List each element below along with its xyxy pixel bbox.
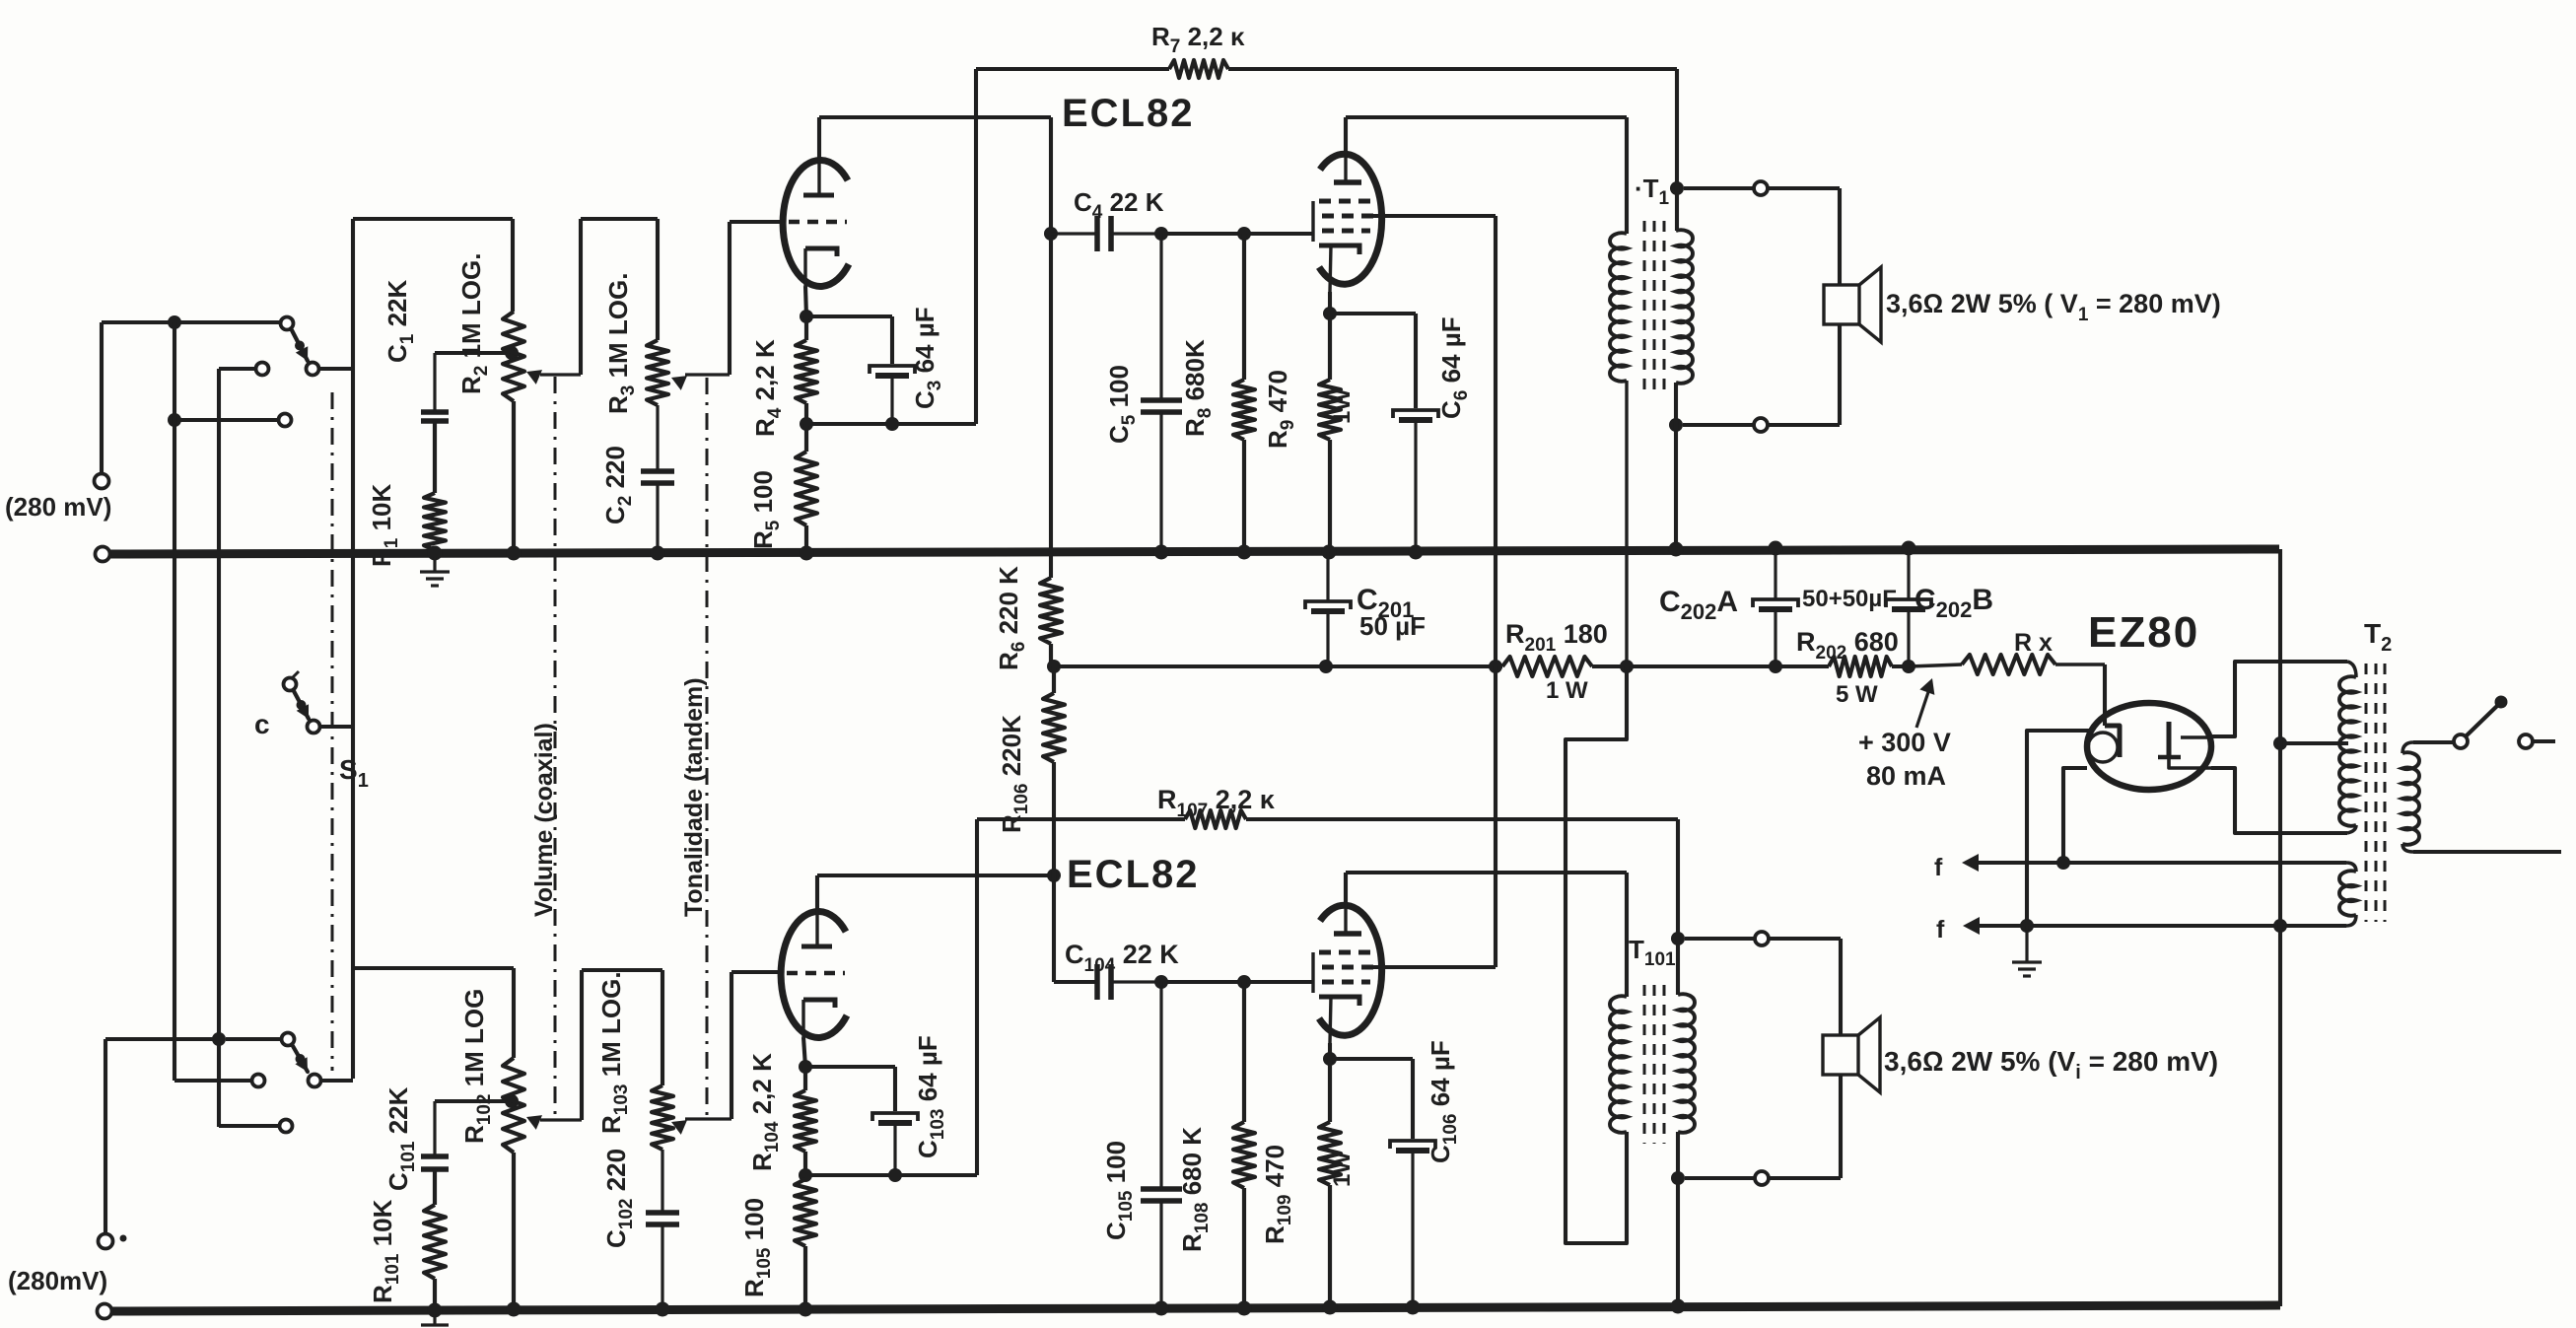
wire: S1a pole to riser [318,367,353,371]
svg-text:f: f [1934,854,1943,881]
power transformer T2 HV secondary [2339,676,2356,825]
wire: C4 to pentode grid [1161,232,1244,236]
wire: terminal to speaker LS1 bottom [1768,423,1840,427]
wire: R3 wiper to triode V1a grid [728,222,731,375]
capacitor C1 22K (loudness tap) [421,409,449,415]
svg-text:80 mA: 80 mA [1866,761,1946,791]
node: C202A on bus1 [1769,541,1783,556]
node: R102 on bus2 [507,1302,522,1317]
wire: R103 wiper to triode V2a grid [730,972,733,1119]
svg-text:1W: 1W [1329,388,1356,424]
switch S1c contact (unused) [284,678,297,691]
node: C103 to feedback node [888,1168,902,1182]
wire: T101 B+ feed (jogged riser) [1566,666,1627,1243]
wire: riser x=358 (S1 common, box feed) [351,219,355,1079]
triode V2a (ECL82 section) [781,911,847,1037]
node: C3 to feedback node [885,417,899,431]
wire: secondary cold to terminal ch2 [1685,1176,1755,1180]
node: junction input J2 riser [212,1032,226,1046]
wire: secondary cold to terminal [1683,423,1755,427]
node: T101 secondary bottom [1671,1171,1685,1185]
wire: V2a plate lead [815,875,819,909]
node: R108 top [1237,975,1251,989]
resistor R8 680K [1242,234,1246,380]
wire: anode node down to R6 [1049,234,1053,578]
node: R8 top [1237,227,1251,241]
node: T101 secondary top / feedback takeoff [1671,932,1685,945]
node: V2b cathode junction [1328,1043,1332,1059]
wiper of R103 [685,1117,731,1120]
node: R109 on bus2 [1323,1300,1338,1315]
transformer T101 core [1643,985,1646,1144]
switch S1b top contact [282,1033,295,1046]
capacitor C103 64uF (electrolytic) [872,1113,918,1121]
node: C106 on bus2 [1406,1300,1421,1315]
node: R1 on bus1 [428,546,443,561]
node: heater line f (lower) junctions [1980,924,2346,928]
svg-text:1W: 1W [1329,1152,1356,1187]
wire: terminal to speaker LS2 bottom [1769,1176,1841,1180]
node: R5 on bus1 [800,546,814,561]
svg-text:R x: R x [2014,629,2053,657]
wire: riser x=222 (second source bus) [217,369,221,1127]
switch S1a pole contact [307,363,319,376]
resistor R104 2.2K [803,1067,807,1090]
resistor R5 100 [804,424,808,452]
switch S1b pole contact [309,1075,321,1087]
node: T101 secondary return on bus2 [1671,1299,1686,1314]
pentode V2b (ECL82 output section ch2) [1319,905,1382,1035]
capacitor C101 22K (loudness tap ch2) [421,1153,449,1159]
wire: S1b pole to riser x=358 [321,1079,353,1083]
node: C202B on bus1 [1902,541,1916,556]
capacitor C6 64uF (electrolytic) [1393,410,1438,418]
speaker terminal (hot) ch1 [1754,181,1768,195]
triode V1a (ECL82 section) [783,160,849,286]
potentiometer R102 1M LOG (volume ch2) [503,1058,524,1153]
EZ80 anode/cathode bars [2105,726,2120,757]
output transformer T101 primary [1610,996,1627,1133]
svg-text:c: c [254,709,270,739]
wire: secondary hot to speaker terminal [1684,186,1755,190]
switch S1b blade [293,1046,308,1072]
switch S1b lower contact [280,1120,293,1133]
wire: V2b screen grid to supply riser [1372,965,1496,969]
wire: secondary hot to terminal ch2 [1685,937,1755,941]
capacitor C102 220 [646,1210,679,1216]
capacitor C202B 50uF (electrolytic) [1886,599,1931,607]
wire: terminal to speaker LS1 [1768,186,1840,190]
wire: lower contact to riser x=177 [174,418,279,422]
node: T1 secondary bottom [1669,418,1683,432]
svg-text:(280mV): (280mV) [8,1266,107,1295]
capacitor C3 64uF (electrolytic) [870,366,915,374]
node: T1 secondary top / feedback takeoff [1670,181,1684,195]
EZ80 heater (inner circle) [2088,733,2118,762]
wiper of R2 [540,373,581,376]
power transformer T2 mains primary [2402,752,2419,845]
svg-text:+ 300 V: + 300 V [1858,728,1951,757]
loudspeaker LS2 3.6 ohm [1823,1035,1858,1075]
input ground terminal (bus1 left end) [96,547,110,562]
wire: C104 to pentode V2b grid [1161,980,1244,984]
wire: V2b plate to T101 primary [1344,873,1348,902]
node: output transformer B+ tap [1620,660,1634,673]
ground stub below bus2 [433,1314,436,1325]
node: C105 top [1154,975,1168,989]
wire: cathode to C106 [1330,1057,1413,1061]
speaker terminal (cold) ch1 [1754,418,1768,432]
wiper of R102 [540,1118,582,1121]
capacitor C105 100 [1141,1186,1182,1192]
output transformer T1 primary [1610,233,1627,381]
heater line f (upper) [1979,861,2346,865]
node: V1a anode / C4 node [1044,227,1058,241]
transformer T1 core (laminations) [1643,221,1646,389]
wire: feedback node to R7 riser [806,422,976,426]
node: R9/C201 on bus1 [1322,545,1337,560]
wire: feedback node to R107 riser [805,1173,977,1177]
node: R104/R105 feedback node [799,1168,812,1182]
node: C202A on B+ line [1769,660,1782,673]
wire: riser x=177 down to lower selector [173,322,176,1081]
switch S1c blade [294,691,309,719]
mains switch contact 2 [2519,734,2533,748]
input terminal J1 (280 mV) top-left [95,474,109,489]
resistor R202 680 5W [1829,657,1892,676]
ground symbol (heater/centre-tap) [2025,926,2028,962]
svg-text:1 W: 1 W [1546,677,1588,704]
switch S1c pole contact [308,721,320,734]
switch S1a blade [292,330,308,361]
node: screen supply tap [1489,660,1502,673]
node: C2 on bus1 [651,546,665,561]
node: C102 on bus2 [656,1302,670,1317]
wire: R102 wiper over to tone pot R103 [580,970,584,1120]
switch S1b contact from riser x=177 [252,1075,265,1087]
resistor R201 180 1W [1502,657,1592,676]
resistor R9 470 1W [1328,314,1332,380]
wire: S1c pole to riser x=358 [319,725,353,729]
resistor R108 680K [1242,982,1246,1122]
transformer T2 core (laminations) [2365,664,2368,922]
node: R108 on bus2 [1237,1301,1252,1316]
wire: anode node jog to C104 [1052,762,1056,875]
input ground terminal (bus2 left end) [98,1304,112,1319]
resistor R101 10K [433,1169,437,1205]
svg-text:f: f [1936,916,1945,944]
node: T2 HV center tap to ground [2273,736,2287,750]
node: +300V rail (C202B / RX) [1902,660,1915,673]
svg-text:Tonalidade (tandem): Tonalidade (tandem) [680,677,708,917]
mechanical link Volume coaxial (dash-dot) [554,377,557,1118]
wire: V1a plate lead to load [817,117,821,158]
capacitor C104 22K (coupling ch2) [1094,964,1100,1000]
output transformer T101 secondary [1678,994,1695,1133]
svg-text:Volume (coaxial): Volume (coaxial) [530,723,558,917]
wiper of R3 [685,373,730,376]
potentiometer R3 1M LOG (tone) [647,340,668,405]
switch S1a top contact [281,317,294,330]
ground bus (lower channel) [112,1305,2280,1311]
loudspeaker LS1 3.6 ohm [1824,285,1859,324]
rectifier tube EZ80 [2087,703,2211,790]
node: V2a anode / C104 node [1047,869,1061,882]
wire: mains lead bottom [2413,850,2561,854]
wire: J2 riser to lower selector [105,1037,219,1041]
wire: EZ80 plate 1 to T2 HV top [2211,662,2347,736]
speaker terminal (cold) ch2 [1755,1171,1769,1185]
switch S1a alternate contact [256,363,269,376]
wire: cathode to C6 [1330,312,1416,315]
node: V2a cathode junction [803,1037,805,1067]
node: R6/R106 junction on B+ line [1047,660,1061,673]
resistor RX (dropper to rectifier) [1909,664,1962,666]
capacitor C4 22K (coupling) [1094,216,1100,251]
speaker terminal (hot) ch2 [1755,932,1769,945]
wire: terminal to speaker LS2 [1769,937,1841,941]
node: R101 on bus2 [428,1303,443,1318]
resistor R1 10K [433,421,437,493]
node: R8 on bus1 [1237,545,1252,560]
svg-text:ECL82: ECL82 [1067,853,1200,896]
wire: cathode to C3 [806,315,892,318]
capacitor C202A 50uF (electrolytic) [1753,599,1798,607]
mains switch contact 1 [2454,734,2468,748]
svg-text:50+50µF: 50+50µF [1802,586,1897,612]
wire: tap on R102 to C101 [435,1099,512,1103]
resistor R106 220K (V2a load) [1052,666,1056,693]
wire: EZ80 heater pin 2 to upper f line [2063,768,2087,863]
ground symbol below bus1 [433,557,436,572]
node: C5 top [1154,227,1168,241]
wire: cathode to C103 [805,1065,895,1069]
node: V1a cathode junction [805,286,806,316]
wire: top input jack J1 riser and lead to selector S1a [100,322,104,474]
svg-text:ECL82: ECL82 [1062,92,1195,135]
potentiometer R103 1M LOG (tone ch2) [652,1085,673,1150]
svg-text:50 µF: 50 µF [1359,611,1426,641]
resistor R6 220K (V1a load) [1040,578,1062,644]
capacitor C106 64uF (electrolytic) [1390,1141,1435,1149]
potentiometer R2 1M LOG (volume) [503,312,524,401]
resistor R4 2.2K [804,316,808,340]
resistor R7 2.2K (feedback) [976,67,1169,71]
wire: B+ distribution line [1054,664,1502,668]
wire: T1 secondary bottom to ground bus [1674,425,1678,549]
switch S1a lower contact [279,414,292,427]
wire: alternate contact to riser x=222 [219,367,256,371]
wire: R2/R102 tone link box (bottom) [353,966,514,970]
mains switch blade [2467,706,2497,735]
node: C6 on bus1 [1409,545,1424,560]
svg-text:5 W: 5 W [1836,681,1878,708]
wire: S1b lower contact to riser x=222 [219,1124,279,1128]
node: R105 on bus2 [799,1302,813,1317]
node: C5 on bus1 [1154,545,1169,560]
input terminal J2 (280 mV) bottom-left [99,1234,113,1249]
resistor R109 470 1W [1328,1059,1332,1122]
ground bus (upper channel) [109,549,2279,554]
svg-text:EZ80: EZ80 [2088,608,2199,657]
resistor R107 2.2K (feedback ch2) [977,817,1185,821]
node: T1 secondary return on bus1 [1669,542,1684,557]
wire: R2 wiper over to tone pot R3 [579,219,583,375]
wire: V1b plate to T1 primary [1344,117,1348,151]
wire: T101 secondary bottom to ground bus 2 [1676,1178,1680,1304]
wire: V1b screen grid to supply riser [1372,214,1496,218]
node: riser x=177 tee [168,413,181,427]
node: R2 on bus1 [507,546,522,561]
node: R4/R5 feedback node [800,417,813,431]
mechanical link Tonalidade tandem (dash-dot) [706,378,709,1117]
wire: box1 top edge to volume pot R2 [353,217,513,221]
wire: RX to EZ80 cathode [2103,664,2107,726]
mechanical link S1 (dash-dot) [331,392,334,1071]
capacitor C2 220 [641,468,674,474]
pentode V1b (ECL82 output section) [1319,154,1382,284]
node: C105 on bus2 [1154,1301,1169,1316]
node: V1b cathode junction [1328,292,1332,314]
printing dot near J2 [120,1235,127,1242]
output transformer T1 secondary [1676,230,1693,384]
wire: ground riser right side [2278,549,2282,1306]
svg-text:(280 mV): (280 mV) [5,492,111,522]
node: junction top input riser / contact riser [168,315,181,329]
resistor R105 100 [795,1179,816,1246]
power transformer T2 heater winding [2339,871,2356,915]
capacitor C201 50uF (electrolytic) [1305,601,1351,609]
capacitor C5 100 [1141,397,1182,403]
wire: tap on R2 to C1 [435,351,512,355]
wire: EZ80 heater pin to lower f line [2027,731,2089,926]
wire: EZ80 plate 2 to T2 HV bottom [2211,768,2347,833]
